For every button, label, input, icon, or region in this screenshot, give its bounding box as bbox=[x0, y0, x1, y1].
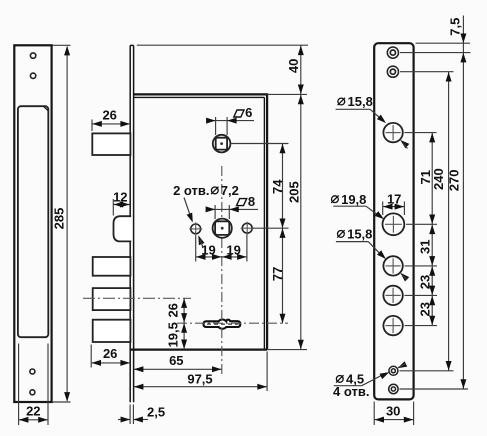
left faceplate top screw hole bbox=[30, 53, 35, 58]
square-6 label bbox=[234, 110, 244, 117]
dimension 65 line bbox=[134, 368, 222, 370]
dimension 270 line bbox=[462, 53, 464, 389]
leader to d4.5 hole bbox=[362, 373, 386, 386]
body bottom extension to 205 dim bbox=[267, 349, 307, 351]
svg-text:7,5: 7,5 bbox=[447, 18, 462, 36]
dimension 22 line bbox=[19, 419, 48, 421]
right 7.2 hole bbox=[242, 223, 252, 233]
left 7.2 hole bbox=[191, 224, 201, 234]
lock body inner right line bbox=[263, 97, 265, 349]
handle follower square hole bbox=[216, 138, 227, 150]
svg-text:2 отв.: 2 отв. bbox=[173, 183, 209, 198]
svg-text:97,5: 97,5 bbox=[187, 372, 212, 387]
svg-text:7,2: 7,2 bbox=[221, 183, 239, 198]
dimension 17 line bbox=[383, 206, 405, 208]
extension line for 12 bbox=[112, 199, 114, 216]
svg-text:71: 71 bbox=[418, 170, 433, 184]
lock body outline bbox=[130, 94, 267, 349]
hole d15.8 upper bbox=[383, 123, 402, 142]
svg-text:19: 19 bbox=[226, 242, 240, 257]
svg-text:6: 6 bbox=[245, 105, 252, 120]
dimension 17 extensions bbox=[382, 202, 384, 216]
top screw hole 2 bbox=[387, 66, 398, 77]
svg-text:19: 19 bbox=[201, 242, 215, 257]
top reference extension line bbox=[137, 44, 308, 46]
extension line top of 285 bbox=[53, 44, 71, 46]
hole d15.8 third bbox=[383, 286, 402, 305]
left faceplate slot bbox=[18, 106, 48, 337]
key axis centerline bbox=[221, 166, 223, 375]
hole d19.8 bbox=[383, 213, 405, 235]
label d4.5 4otv bbox=[336, 376, 343, 383]
svg-text:31: 31 bbox=[417, 239, 432, 253]
square-8 dimension line bbox=[206, 208, 258, 210]
svg-text:30: 30 bbox=[386, 403, 400, 418]
svg-text:40: 40 bbox=[286, 59, 301, 73]
d19.8 extension bbox=[406, 223, 437, 225]
handle follower center dot bbox=[220, 142, 223, 145]
dimension 26-19.5 line bbox=[183, 298, 185, 349]
label d15.8 upper bbox=[338, 98, 345, 105]
hole d15.8 second bbox=[383, 256, 402, 275]
dimension 12 line bbox=[113, 204, 130, 206]
key square hole bbox=[215, 221, 229, 235]
keyhole bbox=[204, 319, 241, 328]
svg-text:12: 12 bbox=[113, 190, 127, 205]
key square extension to 74-77 dims bbox=[253, 227, 289, 229]
svg-text:285: 285 bbox=[52, 208, 67, 230]
key square circle bbox=[213, 219, 232, 238]
square-6 extension lines bbox=[215, 117, 217, 135]
svg-text:77: 77 bbox=[270, 267, 285, 281]
svg-text:74: 74 bbox=[270, 179, 285, 194]
d15.8 second extension bbox=[405, 265, 438, 267]
dimension 285 line bbox=[66, 47, 68, 401]
dimension 30 line bbox=[374, 419, 413, 421]
svg-text:2,5: 2,5 bbox=[147, 405, 165, 420]
bottom hole2 extension bbox=[400, 388, 469, 390]
leader to d15.8 second bbox=[368, 242, 381, 255]
screw1 extension bbox=[400, 52, 471, 54]
svg-text:205: 205 bbox=[286, 181, 301, 203]
dimension 240 line bbox=[448, 72, 450, 371]
d15.8 fourth extension bbox=[405, 325, 438, 327]
extension line bottom of 285 bbox=[53, 401, 71, 403]
dimension 19-19 line bbox=[196, 256, 247, 258]
follower extension arrowline 74 bbox=[282, 144, 284, 228]
svg-text:15,8: 15,8 bbox=[347, 227, 372, 242]
svg-text:19,5: 19,5 bbox=[165, 322, 180, 347]
extension line for top 26 bbox=[91, 120, 93, 132]
slot corner notch bbox=[44, 106, 49, 110]
top screw hole 1 bbox=[387, 47, 398, 58]
extension line for bottom 26 bbox=[90, 345, 92, 368]
dimension 2.5 lines bbox=[118, 419, 130, 421]
left faceplate second screw hole bbox=[30, 73, 35, 78]
svg-text:23: 23 bbox=[417, 275, 432, 289]
label d19.8 bbox=[332, 196, 339, 203]
d15.8 third extension bbox=[405, 294, 438, 296]
extension lines for 2.5 bbox=[129, 405, 131, 425]
svg-text:22: 22 bbox=[26, 403, 40, 418]
dimension 40 line bbox=[300, 45, 302, 94]
left faceplate bottom screw hole bbox=[30, 369, 35, 374]
svg-text:26: 26 bbox=[102, 108, 116, 123]
extension lines for 19-19 bbox=[195, 236, 197, 262]
deadbolt pin 1 bbox=[93, 257, 131, 276]
svg-text:65: 65 bbox=[169, 353, 183, 368]
dimension 97.5 line bbox=[134, 386, 268, 388]
square-8 label bbox=[237, 199, 247, 206]
screw2 extension bbox=[400, 71, 454, 73]
svg-text:19,8: 19,8 bbox=[341, 192, 366, 207]
extension for 97.5 bbox=[266, 352, 268, 392]
bottom hole d4.5 second bbox=[389, 384, 398, 393]
leader to d15.8 upper bbox=[370, 109, 383, 120]
hole d15.8 fourth bbox=[383, 316, 402, 335]
handle follower circle bbox=[213, 135, 231, 153]
svg-text:23: 23 bbox=[417, 302, 432, 316]
dimension 30 extensions bbox=[373, 402, 375, 426]
left faceplate lowest screw hole bbox=[30, 390, 35, 395]
bottom hole d4.5 first bbox=[389, 366, 398, 375]
square-6 dimension line bbox=[207, 120, 255, 122]
leader to left 7.2 hole bbox=[184, 198, 191, 218]
dimension 26 top line bbox=[92, 123, 130, 125]
dimension 205 line bbox=[300, 95, 302, 350]
svg-text:15,8: 15,8 bbox=[348, 94, 373, 109]
top square bolt bbox=[92, 133, 130, 155]
left faceplate outline bbox=[14, 45, 51, 402]
svg-text:26: 26 bbox=[103, 346, 117, 361]
plate top extension bbox=[416, 42, 471, 44]
svg-text:8: 8 bbox=[248, 194, 255, 209]
dimension 71-31-23-23 line bbox=[431, 133, 433, 326]
deadbolt pin 3 bbox=[93, 320, 131, 342]
d15.8 upper extension bbox=[405, 132, 437, 134]
dimension 77 line bbox=[282, 228, 284, 323]
svg-text:4 отв.: 4 отв. bbox=[333, 384, 369, 399]
keyhole horizontal centerline bbox=[177, 322, 288, 324]
leader to d19.8 bbox=[366, 206, 379, 216]
dimension 26 bottom line bbox=[91, 362, 130, 364]
body top extension to 205 dim bbox=[267, 93, 307, 95]
latch bolt bbox=[114, 216, 132, 241]
bottom hole1 extension bbox=[400, 370, 454, 372]
deadbolt pin 2 centerline bbox=[83, 297, 191, 299]
right plate outline bbox=[374, 43, 413, 399]
svg-text:240: 240 bbox=[431, 168, 446, 190]
faceplate edge (middle view) bbox=[130, 45, 133, 402]
key square center dot bbox=[221, 227, 224, 230]
svg-text:26: 26 bbox=[165, 303, 180, 317]
label d15.8 second bbox=[338, 231, 345, 238]
square-8 extension lines bbox=[214, 205, 216, 219]
lock body inner top line bbox=[134, 96, 265, 98]
extension lines for 22 bbox=[18, 344, 20, 426]
dimension 7.5 line bbox=[462, 16, 464, 53]
follower extension to 74 dim bbox=[231, 143, 289, 145]
svg-text:17: 17 bbox=[387, 192, 401, 207]
deadbolt pin 2 bbox=[93, 288, 131, 310]
